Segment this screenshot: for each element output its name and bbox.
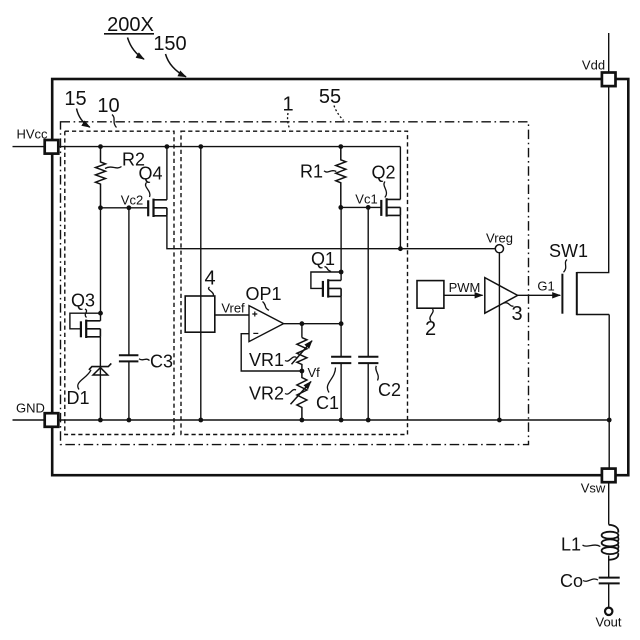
label L1 with leader [561, 535, 600, 555]
transistor SW1 (power switch) [562, 272, 576, 315]
terminal Vdd pad [602, 73, 616, 87]
zener diode D1 [89, 363, 111, 375]
label 1 with dotted leader [282, 94, 293, 130]
svg-text:G1: G1 [537, 279, 554, 294]
block 2 (PWM generator) [417, 281, 444, 309]
dash-dot box 55 (regulator block) [61, 122, 529, 445]
svg-text:C2: C2 [378, 380, 401, 400]
label 55 with dotted leader [319, 86, 344, 121]
svg-text:PWM: PWM [449, 280, 481, 295]
terminal circle Vreg [495, 245, 503, 253]
transistor Q2 [381, 198, 400, 216]
dashed box 10 (left sub-block) [65, 131, 174, 434]
label Q2 with leader [371, 163, 395, 198]
svg-text:R1: R1 [300, 162, 323, 182]
terminal circle Vout [605, 608, 612, 615]
wire Vc1 node line [341, 206, 382, 208]
dashed box 1 (right sub-block) [181, 131, 408, 434]
svg-text:Vf: Vf [308, 365, 321, 380]
chip outline 150 [52, 79, 628, 475]
arrow G1 gate signal [518, 294, 561, 296]
wire Vreg circle down to GND [498, 253, 500, 420]
wire L1 to Co [608, 555, 610, 577]
transistor Q4 [148, 199, 167, 217]
svg-text:200X: 200X [107, 14, 154, 36]
wire Co to Vout [608, 584, 610, 608]
node Vf dot [300, 369, 305, 374]
wire Vref from block 4 to OP1 [215, 314, 249, 316]
variable resistor VR1 [292, 338, 313, 371]
svg-text:Co: Co [560, 571, 583, 591]
label VR2 with leader [249, 384, 296, 404]
node Vc2 dots [98, 205, 103, 210]
label 3 with leader [504, 303, 523, 325]
wire OP1 feedback loop to Vf [241, 334, 302, 371]
node OP1 output dots [300, 321, 305, 326]
label 2 with leader [425, 309, 436, 340]
label C2 with leader [376, 366, 401, 400]
terminal Vsw pad [602, 469, 616, 483]
svg-text:HVcc: HVcc [16, 127, 48, 142]
wire R2 bottom to Q3 drain [100, 208, 102, 321]
node Q3 gate-drain dot [98, 311, 103, 316]
svg-text:Vc1: Vc1 [355, 191, 377, 206]
wire C2 branch (Vc1 to GND) [367, 207, 369, 420]
svg-text:VR1: VR1 [249, 350, 284, 370]
svg-text:C1: C1 [316, 393, 339, 413]
op-amp OP1 [249, 306, 284, 342]
terminal GND pad [45, 413, 59, 427]
arrow PWM signal [444, 294, 483, 296]
wire Q2 source to Vreg rail [399, 215, 401, 248]
node Vc1 dots [338, 205, 343, 210]
wire Vreg rail from Q4 source [167, 216, 495, 249]
svg-text:1: 1 [282, 94, 293, 116]
transistor Q3 (diode-connected, gate loop) [70, 313, 101, 338]
svg-text:Q4: Q4 [138, 164, 162, 184]
wire Q4 drain drop [166, 147, 168, 200]
wire Vsw to L1 [608, 482, 610, 524]
node Q2 source on Vreg rail [398, 246, 403, 251]
svg-text:VR2: VR2 [249, 384, 284, 404]
svg-text:Vref: Vref [221, 300, 245, 315]
label 150 with arrow [153, 33, 186, 77]
svg-text:Q2: Q2 [371, 163, 395, 183]
label D1 with leader [66, 370, 91, 408]
capacitor C1 [331, 357, 351, 363]
label VR1 with leader [249, 350, 297, 370]
transistor Q1 (diode-connected, gate loop) [311, 272, 341, 298]
label R2 with leader [105, 150, 145, 170]
label R1 with leader [300, 162, 336, 182]
svg-text:Vreg: Vreg [486, 230, 513, 245]
wire Q1 source down through C1 to GND [340, 296, 342, 420]
buffer 3 (gate driver) [485, 278, 518, 314]
terminal HVcc pad [45, 140, 59, 154]
label Q3 with leader [71, 291, 95, 318]
resistor R2 [96, 147, 106, 208]
label OP1 with leader [245, 284, 281, 310]
wire Q2 drain drop from HVcc corner [399, 147, 401, 200]
wire SW1 source to Vsw [577, 315, 609, 469]
wire Vdd to SW1 drain [577, 86, 609, 272]
node junction dots on GND rail [98, 418, 103, 423]
wire Vdd lead above chip [608, 33, 610, 73]
block 4 (reference generator) [185, 296, 215, 332]
label Q4 with leader [138, 164, 162, 198]
svg-text:GND: GND [16, 401, 45, 416]
capacitor C2 [358, 357, 378, 363]
node Q1 gate-drain dot [339, 270, 344, 275]
svg-text:C3: C3 [150, 352, 173, 372]
svg-text:OP1: OP1 [245, 284, 281, 304]
svg-text:10: 10 [97, 95, 119, 117]
inductor L1 [602, 525, 619, 560]
svg-text:150: 150 [153, 33, 186, 55]
wire through block 4 (HVcc to GND) [200, 147, 202, 420]
svg-text:L1: L1 [561, 535, 581, 555]
resistor R1 [336, 147, 346, 208]
label 10 with leader [97, 95, 119, 128]
wire C3 branch [128, 208, 130, 420]
label C1 with leader [316, 368, 339, 414]
svg-text:15: 15 [64, 88, 86, 110]
capacitor Co [599, 578, 620, 584]
wire Vc2 node line [101, 207, 149, 209]
svg-text:SW1: SW1 [549, 241, 588, 261]
svg-text:55: 55 [319, 86, 341, 108]
label Q1 with leader [311, 249, 335, 272]
svg-text:D1: D1 [66, 388, 89, 408]
svg-text:Vc2: Vc2 [121, 192, 143, 207]
label SW1 with leader [549, 241, 588, 272]
label C3 with leader [139, 352, 173, 372]
wire GND rail [13, 419, 610, 421]
label 200X with underline and arrow [104, 14, 154, 59]
svg-text:Q3: Q3 [71, 291, 95, 311]
wire Q3 source to D1 and GND [99, 337, 101, 420]
wire Vc1 down to Q1 [340, 207, 342, 280]
capacitor C3 [119, 355, 138, 361]
variable resistor VR2 [291, 371, 312, 420]
label 15 with arrow [64, 88, 89, 127]
label Co with leader [560, 571, 598, 591]
svg-text:Vdd: Vdd [582, 58, 605, 73]
svg-text:Vout: Vout [595, 615, 621, 630]
wire HVcc rail [13, 146, 401, 148]
svg-text:Vsw: Vsw [581, 481, 606, 496]
label 4 with leader [204, 268, 215, 296]
svg-text:4: 4 [204, 268, 215, 290]
node junction dots on HVcc rail [98, 144, 103, 149]
wire VR1 top branch [301, 324, 303, 338]
svg-text:Q1: Q1 [311, 249, 335, 269]
wire OP1 output [284, 323, 342, 325]
